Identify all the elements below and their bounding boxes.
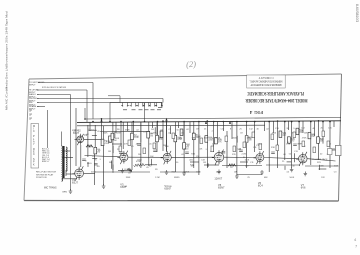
svg-text:6SJ7: 6SJ7 (72, 181, 78, 185)
svg-text:SP: SP (29, 119, 33, 121)
svg-text:500K: 500K (290, 177, 295, 179)
svg-text:470K: 470K (185, 172, 190, 174)
svg-text:1M: 1M (98, 150, 101, 152)
svg-text:1M: 1M (150, 135, 153, 137)
svg-text:GRN: GRN (62, 192, 67, 194)
svg-text:6SJ7: 6SJ7 (73, 131, 79, 135)
svg-text:SHOWN IN PLAY: SHOWN IN PLAY (36, 173, 54, 176)
svg-text:2M: 2M (138, 154, 141, 156)
svg-text:8MFD: 8MFD (174, 177, 180, 179)
svg-text:6C4: 6C4 (258, 184, 263, 188)
svg-text:500K: 500K (91, 172, 96, 174)
svg-text:2.2M: 2.2M (155, 177, 160, 179)
svg-text:100K: 100K (103, 133, 108, 135)
svg-text:1M: 1M (187, 145, 190, 147)
svg-text:C: C (33, 153, 35, 156)
svg-text:150K: 150K (334, 166, 339, 168)
svg-text:C: C (33, 130, 35, 133)
svg-text:8-60/3810/3: 8-60/3810/3 (355, 4, 359, 22)
svg-text:100K: 100K (115, 138, 120, 140)
svg-text:12AX7: 12AX7 (214, 177, 222, 181)
svg-text:220K: 220K (134, 136, 139, 138)
svg-text:150K: 150K (204, 138, 209, 140)
svg-text:500K: 500K (137, 160, 142, 162)
svg-text:1M: 1M (234, 172, 237, 174)
svg-text:470K: 470K (302, 138, 307, 140)
svg-text:BRN 5-7: BRN 5-7 (42, 161, 49, 163)
svg-text:1M: 1M (203, 162, 206, 164)
svg-text:PHONES JACK: PHONES JACK (312, 158, 328, 161)
svg-text:2.2M: 2.2M (242, 154, 247, 156)
svg-text:220K: 220K (209, 138, 214, 140)
svg-text:6V6: 6V6 (301, 186, 306, 190)
svg-text:500K: 500K (216, 138, 221, 140)
svg-text:INPUT: INPUT (29, 84, 36, 86)
svg-text:NOTE: ALL RES 1/2 W CAP MFD: NOTE: ALL RES 1/2 W CAP MFD (42, 86, 66, 89)
svg-text:POSITION: POSITION (36, 177, 47, 179)
svg-text:330K: 330K (125, 130, 130, 132)
svg-text:SP: SP (29, 111, 33, 113)
svg-text:100K: 100K (112, 140, 117, 142)
svg-text:Mfr A/C /CorbMedia-Dwn L/idBro: Mfr A/C /CorbMedia-Dwn L/idBrowse/wayne … (5, 11, 9, 110)
svg-text:100K: 100K (196, 136, 201, 138)
svg-text:330K: 330K (126, 177, 131, 179)
svg-text:MODEL 2004-44X4070 TAPE RECORD: MODEL 2004-44X4070 TAPE RECORDER (245, 97, 307, 102)
svg-text:MIC TRANS: MIC TRANS (44, 187, 57, 190)
svg-text:470K: 470K (106, 141, 111, 143)
svg-text:220K: 220K (216, 172, 221, 174)
svg-text:FIG 4: FIG 4 (249, 110, 263, 115)
svg-text:220K: 220K (116, 133, 121, 135)
svg-text:SP: SP (29, 115, 33, 117)
svg-text:COMPANY: COMPANY (258, 76, 273, 79)
svg-text:6SN7: 6SN7 (218, 186, 225, 190)
svg-text:REC-PLAY SWITCH: REC-PLAY SWITCH (36, 171, 56, 174)
svg-text:1M: 1M (108, 151, 111, 153)
svg-text:100K: 100K (196, 172, 201, 174)
svg-text:(2): (2) (186, 59, 197, 70)
svg-text:PLAYBACK AMPLIFIER SCHEMATIC: PLAYBACK AMPLIFIER SCHEMATIC (247, 90, 304, 95)
svg-text:1M: 1M (151, 129, 154, 131)
svg-text:2.2M: 2.2M (286, 144, 291, 146)
svg-text:470K: 470K (105, 143, 110, 145)
svg-text:100K: 100K (245, 160, 250, 162)
